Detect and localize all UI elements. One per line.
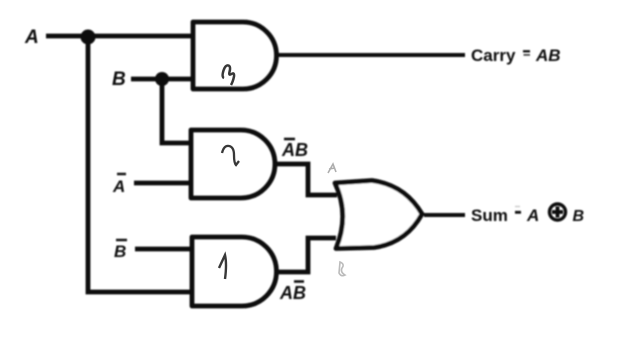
node A junction: [81, 30, 96, 45]
svg-text:AB: AB: [279, 283, 306, 303]
AND gate U3 (bottom, A B-bar): [192, 237, 276, 306]
svg-text:B: B: [114, 242, 126, 261]
svg-text:A: A: [24, 27, 39, 48]
OR gate U4 (Sum): [335, 181, 422, 249]
pencil mark in U3: [219, 255, 226, 279]
wire A-bar input: [134, 181, 193, 186]
svg-text:Carry: Carry: [471, 46, 516, 65]
svg-text:A: A: [526, 206, 539, 225]
pencil mark B near OR bottom input: [339, 262, 345, 276]
wire U3 output to OR input: [276, 238, 336, 272]
svg-text:AB: AB: [281, 140, 308, 160]
svg-text:B: B: [573, 208, 585, 225]
wire B vertical down to middle gate: [162, 79, 193, 143]
wire A vertical down to bottom gate: [88, 37, 193, 292]
wire Carry output: [277, 53, 465, 57]
wire Sum output: [424, 213, 465, 217]
pencil mark in U1: [223, 65, 234, 85]
svg-text:AB: AB: [535, 46, 561, 65]
wire U2 output to OR input: [275, 164, 337, 195]
svg-text:B: B: [112, 69, 126, 90]
wire A input: [46, 34, 193, 39]
wire B input: [131, 77, 193, 82]
pencil mark in U2: [222, 146, 239, 165]
node B junction: [155, 72, 169, 86]
pencil mark A near OR top input: [328, 164, 336, 173]
wire B-bar input: [135, 247, 193, 252]
svg-text:Sum: Sum: [471, 206, 508, 225]
svg-text:A: A: [112, 177, 125, 196]
AND gate U1 (top, Carry): [193, 22, 276, 89]
xor symbol: [550, 204, 566, 220]
AND gate U2 (middle, A-bar B): [191, 130, 275, 198]
